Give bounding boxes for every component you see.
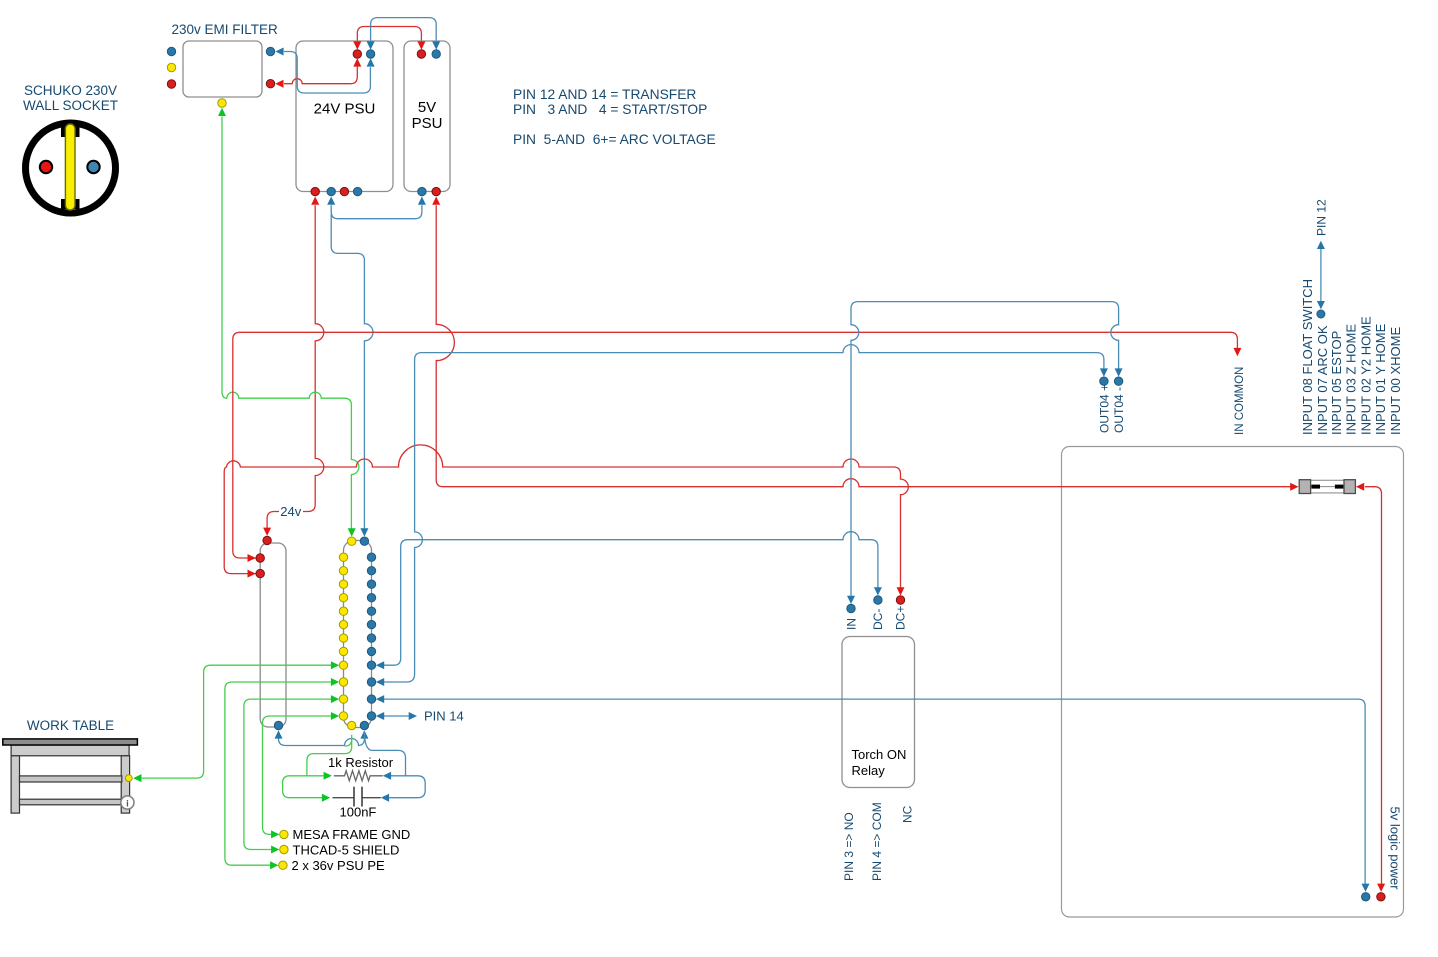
wire: 5V PSU V+ to fuse (red) [436, 205, 1294, 486]
wire: IN COMMON line (red) from plasma box [233, 332, 1238, 558]
wire: strip row4 to MESA frame gnd (green) [263, 716, 335, 834]
PIN12 double arrow and ARC OK dot [1320, 246, 1322, 304]
5V PSU box [404, 41, 450, 192]
wire: OUT04+ to terminal strip (blue) [380, 345, 1104, 682]
wire: strip bottom yellow to resistor/cap (green) [283, 735, 352, 798]
svg-text:PIN 5-AND 6+= ARC VOLTAGE: PIN 5-AND 6+= ARC VOLTAGE [513, 132, 716, 147]
svg-text:5v logic power: 5v logic power [1388, 807, 1403, 891]
svg-text:2 x 36v PSU PE: 2 x 36v PSU PE [292, 858, 386, 873]
svg-text:INPUT 07 ARC OK: INPUT 07 ARC OK [1315, 325, 1330, 435]
wire: THC arc voltage line (blue) long row3 [380, 699, 1365, 887]
svg-text:Relay: Relay [852, 763, 886, 778]
svg-text:5V: 5V [418, 99, 436, 116]
svg-text:PSU: PSU [412, 115, 443, 132]
EMI filter box [183, 41, 262, 97]
terminal strip [344, 541, 372, 728]
svg-text:WALL SOCKET: WALL SOCKET [23, 98, 118, 113]
svg-text:Torch ON: Torch ON [852, 747, 907, 762]
wire: PIN 14 stub (blue) [380, 715, 412, 717]
svg-text:MESA FRAME GND: MESA FRAME GND [293, 827, 411, 842]
5v logic power dots [1377, 893, 1385, 901]
svg-text:THCAD-5 SHIELD: THCAD-5 SHIELD [293, 843, 400, 858]
work table [3, 739, 138, 813]
svg-text:24V PSU: 24V PSU [314, 101, 376, 118]
svg-text:OUT04 -: OUT04 - [1112, 387, 1126, 433]
wire: work table to strip row1 (green) [142, 665, 335, 778]
wire: OUT04- to relay IN (blue) [851, 302, 1119, 600]
plasma box terminal dots [263, 536, 271, 544]
svg-text:INPUT 05 ESTOP: INPUT 05 ESTOP [1329, 331, 1344, 435]
svg-text:PIN 4 => COM: PIN 4 => COM [870, 802, 884, 881]
svg-text:INPUT 02 Y2 HOME: INPUT 02 Y2 HOME [1359, 316, 1374, 435]
ground dots and labels [280, 830, 288, 838]
wire: fuse to 5v logic power red terminal [1365, 487, 1382, 887]
wire: EMI earth to terminal strip (green) [222, 117, 359, 532]
wire: EMI filter N to 24V PSU AC-N (blue) [284, 52, 370, 94]
wire: strip bottom blue to 1k resistor / 100nF (blue) [364, 731, 425, 798]
OUT04 dots [1100, 377, 1108, 385]
wire: relay DC- to terminal strip (blue) [380, 532, 878, 666]
1k resistor [334, 771, 383, 781]
svg-text:1k Resistor: 1k Resistor [328, 755, 394, 770]
svg-text:IN COMMON: IN COMMON [1234, 367, 1246, 435]
wire: 24v to relay DC+ (red) [224, 445, 908, 591]
wire: EMI filter L to 24V PSU AC-L (red) [284, 67, 357, 84]
fuse [1299, 480, 1355, 494]
torch relay box [842, 637, 915, 788]
wire: strip row3 to THCAD-5 shield (green) [244, 699, 335, 849]
plasma cutter box (gray tall box) [260, 543, 286, 727]
work table ground dot [125, 775, 132, 782]
svg-text:24v: 24v [280, 504, 301, 519]
24V PSU box [296, 41, 393, 192]
info icon on work table [121, 796, 134, 809]
svg-text:OUT04 +: OUT04 + [1098, 384, 1112, 433]
svg-text:100nF: 100nF [340, 805, 377, 820]
svg-text:DC+: DC+ [894, 606, 908, 630]
svg-text:PIN 12: PIN 12 [1314, 199, 1328, 236]
svg-text:INPUT 00 XHOME: INPUT 00 XHOME [1388, 327, 1403, 435]
wire: 24V PSU to 5V PSU AC-N jumper (blue) [371, 18, 437, 41]
wire: strip row2 to 2x36v PSU PE (green) [225, 682, 335, 865]
terminal strip dots [339, 553, 347, 561]
relay terminal dots IN DC- DC+ [847, 604, 855, 612]
svg-text:IN: IN [845, 618, 859, 630]
svg-text:PIN 14: PIN 14 [424, 708, 464, 723]
SCHUKO wall socket [26, 123, 116, 213]
svg-text:DC-: DC- [871, 609, 885, 630]
24V PSU terminal dots [353, 50, 361, 58]
EMI filter output dots [266, 47, 274, 55]
EMI filter input terminals (unconnected dots) [167, 47, 175, 55]
svg-text:230v EMI FILTER: 230v EMI FILTER [172, 22, 279, 37]
svg-text:i: i [126, 798, 129, 809]
100nF capacitor [333, 787, 381, 807]
svg-text:PIN 3 => NO: PIN 3 => NO [842, 812, 856, 881]
svg-text:INPUT 01 Y HOME: INPUT 01 Y HOME [1373, 323, 1388, 435]
svg-text:WORK TABLE: WORK TABLE [27, 718, 114, 733]
svg-text:NC: NC [901, 805, 915, 823]
svg-text:SCHUKO 230V: SCHUKO 230V [24, 83, 117, 98]
svg-text:PIN 12 AND 14 = TRANSFER: PIN 12 AND 14 = TRANSFER [513, 87, 696, 102]
wire: 24V PSU to 5V PSU AC-L jumper (red) [357, 27, 421, 41]
svg-text:INPUT 08 FLOAT SWITCH: INPUT 08 FLOAT SWITCH [1300, 279, 1315, 435]
wire: plasma box to strip bottom (blue) [279, 735, 365, 746]
THC / controller box (right) [1062, 447, 1404, 918]
svg-text:INPUT 03 Z HOME: INPUT 03 Z HOME [1343, 324, 1358, 435]
wire: 24V PSU V+ to 24v terminal (red) [267, 205, 324, 531]
wire: 24V PSU V- network (blue) [331, 205, 422, 218]
svg-text:PIN 3 AND 4 = START/STOP: PIN 3 AND 4 = START/STOP [513, 102, 707, 117]
5V PSU terminal dots [417, 50, 425, 58]
